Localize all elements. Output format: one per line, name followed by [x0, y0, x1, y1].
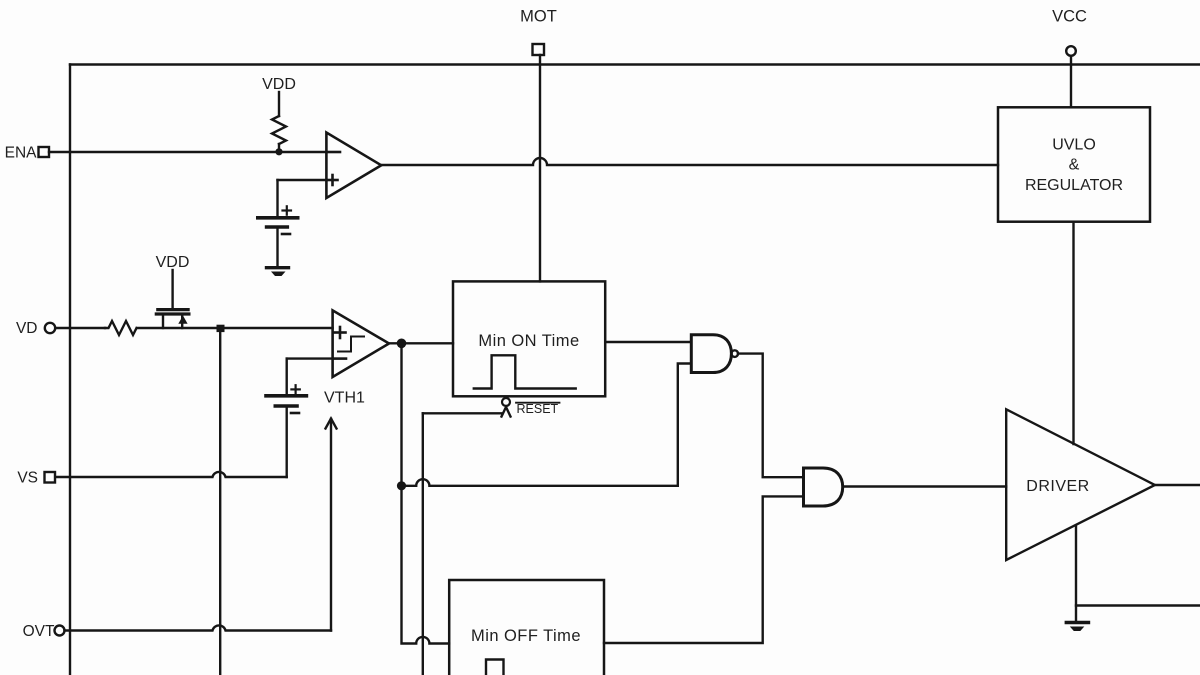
- svg-text:DRIVER: DRIVER: [1026, 478, 1089, 495]
- wire NAND output to AND upper input: [738, 354, 804, 478]
- op-amp comparator U1 (ENA): [326, 133, 381, 199]
- battery V1 (ENA reference): [258, 180, 327, 267]
- ground (driver): [1066, 623, 1088, 632]
- pin MOT: [520, 8, 557, 282]
- wire U2 output to Min ON Time: [389, 342, 453, 344]
- junction node U2 output: [397, 339, 407, 349]
- transistor M1: [156, 270, 189, 328]
- NAND gate U3: [691, 335, 738, 373]
- svg-text:VCC: VCC: [1052, 8, 1087, 26]
- svg-text:VS: VS: [17, 470, 38, 487]
- pulse waveform in Min ON Time: [474, 355, 576, 388]
- driver amplifier U5: [1006, 409, 1155, 560]
- wire UVLO to driver supply: [1072, 222, 1074, 444]
- svg-text:UVLO: UVLO: [1052, 137, 1096, 154]
- svg-text:VDD: VDD: [156, 254, 190, 271]
- wire VD node down: [219, 329, 221, 675]
- AND gate U4: [804, 468, 843, 506]
- IC boundary left: [69, 65, 71, 675]
- pin VD: [16, 320, 105, 337]
- wire driver output: [1155, 484, 1200, 486]
- svg-text:Min ON Time: Min ON Time: [478, 332, 579, 350]
- ground (V1): [267, 268, 289, 276]
- hysteresis symbol in U2: [338, 337, 364, 352]
- wire U1 output to UVLO (hop over MOT line): [381, 158, 998, 165]
- wire feedback to NAND lower input (hop): [402, 364, 692, 486]
- wire driver ground branch: [1075, 526, 1077, 622]
- label RESET (active low): [516, 402, 560, 416]
- svg-text:OVT: OVT: [23, 623, 55, 640]
- svg-text:RESET: RESET: [517, 402, 559, 416]
- wire Min OFF Time output to AND lower input: [604, 496, 804, 643]
- wire ground node to right edge: [1076, 604, 1200, 606]
- svg-text:VD: VD: [16, 320, 38, 337]
- resistor R1: [272, 92, 286, 152]
- pin ENA: [5, 145, 327, 162]
- block Min OFF Time: [449, 580, 604, 675]
- svg-text:ENA: ENA: [5, 145, 38, 162]
- wire VD line to U2: [137, 327, 333, 329]
- block UVLO & REGULATOR: [998, 107, 1150, 221]
- pin OVT: [23, 623, 331, 640]
- svg-text:&: &: [1069, 157, 1080, 174]
- pulse waveform in Min OFF Time (cropped): [486, 660, 504, 675]
- pin VCC: [1052, 8, 1087, 108]
- svg-text:Min OFF Time: Min OFF Time: [471, 627, 581, 645]
- RESET bubble on Min ON Time: [502, 398, 510, 406]
- wire Min ON Time output to NAND upper input: [605, 341, 691, 343]
- svg-text:VDD: VDD: [262, 76, 296, 93]
- wire U2 output down and to Min OFF Time input (hop): [402, 343, 450, 643]
- arrow OVT to VTH1: [326, 419, 337, 631]
- IC boundary top: [70, 63, 1200, 65]
- svg-text:MOT: MOT: [520, 8, 557, 26]
- wire RESET: [423, 407, 511, 675]
- svg-text:REGULATOR: REGULATOR: [1025, 177, 1123, 194]
- pin VS: [17, 470, 286, 487]
- junction node ENA/R1: [275, 148, 282, 155]
- schmitt comparator U2: [333, 310, 389, 377]
- wire AND output to driver: [843, 485, 1007, 487]
- battery V2 (VTH1): [266, 359, 333, 477]
- junction node VD: [217, 325, 225, 332]
- svg-text:VTH1: VTH1: [324, 390, 365, 407]
- block Min ON Time: [453, 281, 605, 396]
- resistor R2: [105, 321, 137, 335]
- junction node feedback: [397, 481, 406, 490]
